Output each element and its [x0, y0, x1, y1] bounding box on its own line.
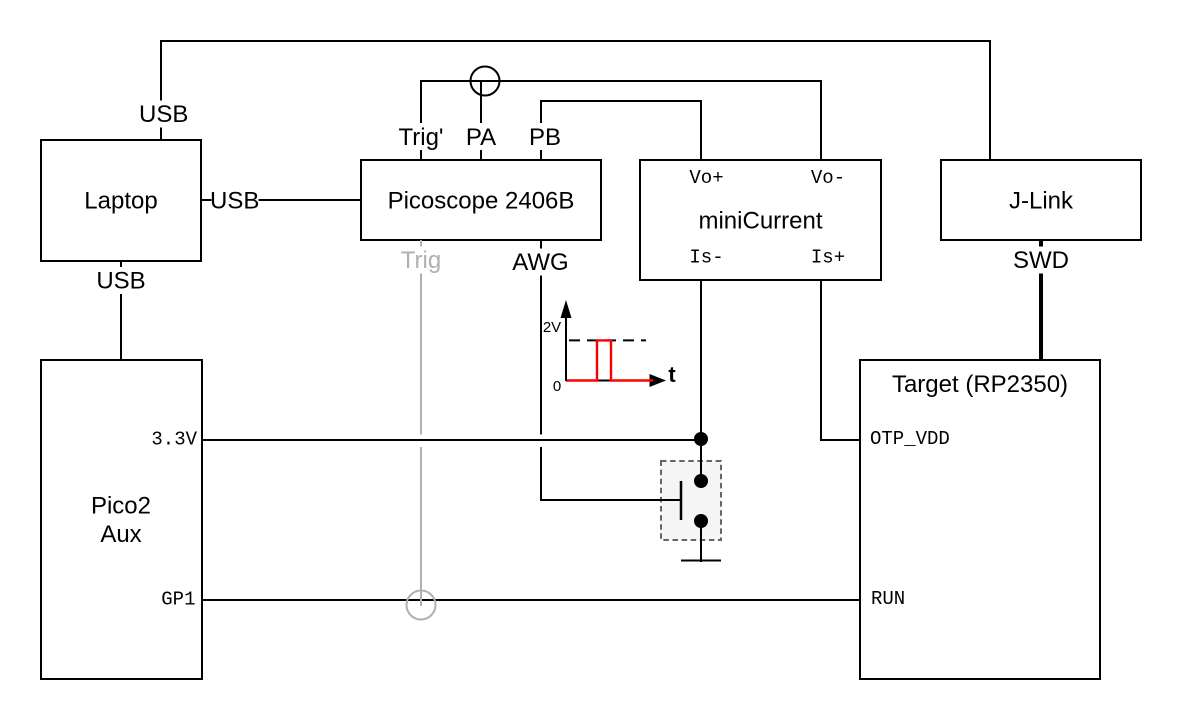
wire Trig (grey)	[420, 240, 422, 606]
wire label Trig'	[396, 123, 446, 150]
svg-text:RUN: RUN	[871, 588, 905, 610]
svg-text:Aux: Aux	[100, 521, 141, 548]
svg-text:J-Link: J-Link	[1009, 188, 1074, 215]
svg-text:USB: USB	[96, 268, 145, 295]
svg-text:Is+: Is+	[811, 247, 845, 269]
wire label SWD	[1011, 247, 1072, 274]
wire label Trig (grey)	[399, 247, 444, 274]
waveform 2V dashed level	[569, 339, 646, 341]
wire AWG to switch	[541, 240, 681, 500]
wire label USB (top left)	[137, 101, 191, 128]
svg-text:Trig: Trig	[401, 247, 441, 274]
wire label USB (laptop-picoscope)	[212, 187, 259, 214]
wire to ground	[700, 521, 702, 562]
svg-text:GP1: GP1	[161, 589, 195, 611]
block Picoscope 2406B	[361, 160, 601, 240]
wire USB Laptop to Pico2 Aux	[120, 261, 122, 360]
svg-text:miniCurrent: miniCurrent	[698, 208, 822, 235]
wire node to switch contact	[700, 439, 702, 480]
switch contact dot lower	[694, 514, 708, 528]
svg-text:AWG: AWG	[512, 249, 568, 276]
junction circle on PA/Trig'	[471, 67, 500, 96]
svg-text:SWD: SWD	[1013, 247, 1069, 274]
svg-text:3.3V: 3.3V	[151, 429, 197, 451]
block Target (RP2350)	[860, 360, 1100, 679]
node junction dot 3.3V/Is-	[694, 432, 708, 446]
svg-text:Vo-: Vo-	[811, 167, 845, 189]
svg-text:USB: USB	[210, 188, 259, 215]
block miniCurrent	[640, 160, 881, 280]
block J-Link	[941, 160, 1141, 240]
switch contact dot upper	[694, 474, 708, 488]
wire Trig' to Vo-	[421, 81, 821, 161]
svg-text:t: t	[668, 362, 676, 387]
wire top bus: Laptop USB to J-Link	[161, 41, 990, 160]
svg-text:Target (RP2350): Target (RP2350)	[892, 371, 1068, 398]
wire 3.3V rail	[202, 439, 701, 441]
svg-text:2V: 2V	[543, 319, 561, 336]
wire PA	[480, 81, 482, 161]
svg-text:OTP_VDD: OTP_VDD	[870, 428, 950, 450]
svg-text:USB: USB	[139, 101, 188, 128]
wire GP1 to RUN	[202, 599, 860, 601]
svg-text:PB: PB	[529, 124, 561, 151]
block Laptop	[41, 140, 201, 261]
ground	[681, 560, 721, 562]
waveform y-axis	[565, 316, 567, 381]
svg-text:PA: PA	[466, 124, 496, 151]
switch actuator bar	[680, 481, 683, 520]
wire label PA	[464, 123, 499, 150]
waveform x-axis	[566, 380, 652, 382]
waveform red pulse	[567, 340, 653, 380]
wire label PB	[527, 123, 564, 150]
wire PB to Vo+	[541, 101, 701, 161]
switch dashed enclosure	[661, 461, 721, 540]
wire USB Laptop to Picoscope	[201, 199, 361, 201]
svg-text:Picoscope 2406B: Picoscope 2406B	[388, 188, 575, 215]
svg-text:Trig': Trig'	[398, 124, 443, 151]
svg-text:Pico2: Pico2	[91, 493, 151, 520]
wire Is+ to OTP_VDD	[821, 280, 860, 440]
svg-text:Is-: Is-	[689, 247, 723, 269]
wire SWD J-Link to Target	[1039, 240, 1043, 360]
grey junction circle on GP1 wire	[407, 591, 436, 620]
svg-text:0: 0	[553, 378, 561, 395]
svg-text:Vo+: Vo+	[689, 167, 723, 189]
wire Is- down to 3.3V node	[700, 280, 702, 439]
block Pico2 Aux	[41, 360, 202, 679]
wire label AWG	[510, 249, 571, 276]
svg-text:Laptop: Laptop	[84, 188, 157, 215]
wire label USB (laptop-pico2)	[94, 267, 148, 294]
